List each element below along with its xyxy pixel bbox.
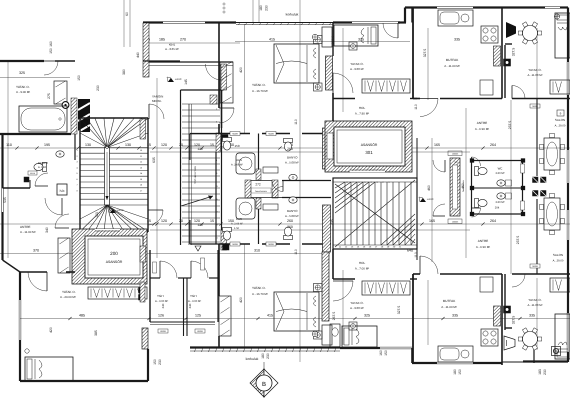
top wall right of window2 — [398, 21, 406, 23]
bottom window center right — [380, 346, 412, 348]
wall x219 upper segment — [218, 23, 220, 62]
chimney trapezoid top — [506, 22, 516, 38]
dimension chain line y77 left — [0, 77, 70, 79]
window marker 90228 right — [530, 104, 540, 108]
svg-text:180: 180 — [261, 353, 265, 359]
window marker 90228 right b — [530, 264, 540, 268]
bed yatak9 top — [334, 25, 378, 46]
fire stair right wall — [221, 64, 223, 128]
circle symbol — [25, 349, 29, 353]
elevator 200 cab — [85, 236, 143, 278]
svg-text:A...20.00 M²: A...20.00 M² — [60, 295, 76, 299]
table round top — [523, 26, 538, 41]
svg-text:YATAK O.: YATAK O. — [528, 298, 541, 302]
wall y279 center — [333, 278, 355, 280]
wardrobe yatak16 top — [220, 62, 233, 103]
dimension chain line y318 — [20, 318, 570, 320]
hb duct box — [57, 184, 67, 195]
svg-text:15: 15 — [210, 143, 214, 147]
svg-text:180: 180 — [259, 5, 263, 11]
center stair bottom-right fan — [381, 214, 415, 245]
svg-text:380: 380 — [122, 69, 126, 75]
top wall right section — [405, 6, 437, 8]
svg-text:90228: 90228 — [268, 243, 273, 246]
svg-text:301: 301 — [365, 150, 373, 155]
wardrobe below elevator — [88, 287, 147, 299]
cabinet left of elevator — [58, 238, 70, 273]
wardrobe right top — [550, 80, 570, 94]
black panel boxes — [139, 288, 145, 294]
salon table top — [544, 138, 560, 170]
svg-text:200: 200 — [110, 251, 118, 256]
svg-text:A. 0.60: A. 0.60 — [38, 166, 47, 169]
top wall window right — [545, 6, 560, 8]
elevator door arc top — [55, 214, 69, 228]
svg-text:635: 635 — [152, 157, 156, 163]
svg-text:A...5.08 M²: A...5.08 M² — [285, 161, 299, 165]
svg-text:100225: 100225 — [452, 221, 458, 224]
wall below tub — [0, 133, 71, 135]
bottom railing center — [190, 350, 340, 352]
kitchen left wall bottom — [412, 274, 414, 363]
svg-text:420: 420 — [239, 297, 243, 303]
hatched wall strip top-left — [143, 23, 149, 77]
fire stair rails — [188, 104, 190, 245]
fire stair hatch top — [210, 95, 217, 104]
svg-text:145: 145 — [184, 79, 188, 85]
svg-text:126: 126 — [158, 314, 164, 318]
svg-text:YATAK O.: YATAK O. — [350, 62, 363, 66]
wall x323 upper — [332, 23, 334, 56]
french balcony inner — [453, 165, 458, 209]
svg-text:YATAK O.: YATAK O. — [252, 83, 266, 87]
salon wall top right — [505, 43, 512, 45]
svg-text:A...9.00 M²: A...9.00 M² — [350, 67, 364, 71]
svg-text:160: 160 — [379, 350, 383, 356]
stove bottom — [481, 329, 498, 346]
nightstand bottom a — [314, 284, 323, 292]
svg-text:60228: 60228 — [30, 172, 35, 175]
svg-text:YGH: YGH — [190, 294, 197, 298]
right wall — [567, 8, 569, 63]
right wall window 4 — [566, 313, 568, 352]
wc bottom sink — [497, 193, 505, 199]
svg-text:15: 15 — [210, 219, 214, 223]
fire stair left wall — [180, 90, 182, 245]
svg-text:A. 2.69 M²: A. 2.69 M² — [231, 223, 243, 226]
dus bottom toilet — [223, 228, 232, 241]
svg-text:120: 120 — [161, 219, 167, 223]
svg-text:ASANSÖR: ASANSÖR — [106, 260, 123, 264]
svg-text:90228: 90228 — [232, 133, 237, 136]
banyo bottom toilet — [284, 227, 293, 240]
stair hall door arc — [149, 104, 164, 119]
antre door arc — [45, 198, 62, 215]
balcony door arc top — [383, 23, 398, 38]
hava bacasi shaft — [245, 180, 251, 198]
cluster left wall — [215, 152, 217, 244]
svg-text:335: 335 — [454, 38, 460, 42]
svg-text:A. 2.69 M²: A. 2.69 M² — [231, 164, 243, 167]
ygh door arc right — [191, 261, 208, 278]
dimension chain line lower 2 — [150, 229, 470, 231]
dus hatch — [256, 169, 261, 180]
black fixture box banyo — [24, 177, 29, 182]
top wall window 2 — [352, 21, 400, 23]
vertical dim line x8 — [7, 60, 9, 258]
banyo toilet top-left — [34, 163, 47, 172]
boiler box — [504, 59, 511, 66]
svg-text:A...16.79 M²: A...16.79 M² — [252, 89, 268, 93]
kitchen door arc — [420, 99, 438, 117]
corridor wall top — [282, 180, 331, 182]
salon kitchen partition bottom — [533, 336, 535, 363]
wc bottom wall — [472, 213, 523, 215]
svg-text:335: 335 — [452, 314, 458, 318]
svg-text:A...3.65 M²: A...3.65 M² — [165, 47, 179, 51]
svg-text:SALON: SALON — [553, 253, 563, 257]
nightstand top b — [314, 83, 323, 91]
svg-text:hava bacası: hava bacası — [255, 190, 267, 193]
elevator 200 door gap — [95, 229, 120, 231]
svg-text:325: 325 — [364, 314, 370, 318]
black wedge block — [78, 99, 90, 132]
svg-text:110: 110 — [294, 119, 298, 125]
svg-text:264: 264 — [490, 143, 496, 147]
vertical dim line x432 — [431, 138, 433, 262]
left wall window — [1, 188, 3, 212]
kitchen cabinet bottom — [480, 277, 493, 292]
svg-text:230: 230 — [265, 5, 269, 11]
ygh door arc left — [160, 261, 177, 278]
banyo top sink — [289, 174, 297, 180]
svg-text:+4.60: +4.60 — [175, 78, 182, 81]
grid bubble 9 — [557, 110, 564, 116]
wc corner blocks — [470, 159, 474, 163]
hol door arc top — [333, 73, 353, 93]
hatch below firestair left — [140, 246, 146, 262]
table round bottom — [523, 332, 538, 347]
svg-text:327.5: 327.5 — [512, 316, 516, 325]
wc window markers — [521, 164, 525, 173]
cabinet top right of bed — [322, 27, 332, 47]
wall y244 left stub — [190, 243, 219, 245]
svg-text:KB41: KB41 — [169, 44, 176, 47]
vertical dim line x130 — [129, 0, 131, 47]
wall x333 vertical bottom — [332, 249, 334, 279]
yatak20 door arc — [28, 272, 47, 291]
left wall band y62 — [149, 61, 233, 63]
svg-text:230: 230 — [266, 353, 270, 359]
banyo wall bottom — [3, 187, 31, 189]
nightstand yatak9 top — [349, 42, 357, 50]
left stair bottom wall — [80, 231, 148, 233]
svg-text:A...9.00 M²: A...9.00 M² — [350, 306, 364, 310]
svg-text:A...9.00 M²: A...9.00 M² — [16, 90, 30, 94]
ygh window marker vert a — [153, 262, 157, 273]
wall y98 center — [333, 98, 355, 100]
left stair arrow — [106, 152, 108, 200]
hatch wall left mid — [140, 119, 146, 139]
svg-text:310: 310 — [254, 249, 260, 253]
svg-text:A...7.80 M²: A...7.80 M² — [355, 112, 369, 116]
svg-text:272: 272 — [255, 183, 261, 187]
wardrobe right bottom — [550, 278, 570, 292]
kitchen door arc bottom — [420, 256, 438, 274]
column squares 2x2 — [533, 177, 539, 183]
top wall window 1 — [163, 21, 205, 23]
svg-text:230: 230 — [543, 369, 547, 375]
nightstand bottom — [330, 324, 340, 347]
dus top shower — [236, 153, 255, 174]
svg-text:260: 260 — [287, 219, 293, 223]
center stair top-left fan — [335, 182, 345, 188]
banyo window marker box — [28, 171, 37, 175]
svg-text:A...3.00 M²: A...3.00 M² — [155, 300, 168, 303]
hatch strip right bottom — [494, 306, 501, 326]
svg-text:150: 150 — [153, 359, 157, 365]
ceiling cross symbol bottom center — [312, 331, 318, 337]
svg-text:korkuluk: korkuluk — [286, 13, 299, 17]
svg-text:60228: 60228 — [160, 330, 165, 333]
black box top cluster — [222, 135, 228, 140]
svg-text:A...11.00 M²: A...11.00 M² — [527, 303, 542, 307]
left wall x2.5 — [1, 134, 3, 188]
wall y62 over fire stair — [143, 60, 180, 62]
svg-text:230: 230 — [158, 359, 162, 365]
svg-text:327.5: 327.5 — [423, 49, 427, 58]
svg-text:60: 60 — [125, 12, 129, 16]
dus hatch b — [256, 198, 261, 209]
window marker 90228 b — [266, 132, 276, 136]
dus top toilet — [223, 138, 232, 151]
center stair top rail — [333, 181, 417, 183]
stove top — [481, 26, 498, 43]
wc top sink — [497, 180, 505, 186]
vertical dim line x511 — [510, 100, 512, 274]
dimension chain line upper 2 — [150, 151, 470, 153]
svg-text:A...6.90 M²: A...6.90 M² — [475, 127, 489, 131]
svg-text:ASANSÖR: ASANSÖR — [361, 143, 378, 147]
kitchen left wall — [412, 8, 414, 99]
svg-text:275: 275 — [47, 93, 51, 99]
salon table bottom — [544, 198, 560, 230]
svg-text:ANTRE: ANTRE — [477, 121, 488, 125]
ygh window marker vert b — [201, 258, 205, 270]
vertical dim line x466 — [465, 108, 467, 258]
kitchen right wall — [501, 8, 503, 99]
svg-text:150: 150 — [49, 48, 53, 54]
nightstand top a — [314, 36, 323, 44]
fire stair direction line — [181, 196, 213, 206]
left stair top wall — [80, 117, 148, 119]
center stair marker +4.60 — [420, 198, 426, 202]
svg-text:A...11.00 M²: A...11.00 M² — [444, 64, 460, 68]
svg-text:195: 195 — [44, 143, 50, 147]
svg-text:150: 150 — [458, 369, 462, 375]
section marker B — [250, 369, 264, 397]
svg-text:415: 415 — [269, 38, 275, 42]
left stair right wall — [147, 118, 149, 232]
svg-text:125: 125 — [195, 314, 201, 318]
svg-text:267.5: 267.5 — [332, 312, 336, 321]
svg-text:B: B — [262, 381, 266, 388]
bed yatak9 bottom — [342, 326, 377, 347]
svg-text:130: 130 — [85, 143, 91, 147]
banyo door arc — [35, 173, 48, 186]
dimension chain line y42 — [143, 42, 240, 44]
hatch wall right of firestair low — [221, 230, 227, 250]
wall x505 vertical — [504, 45, 506, 98]
dus top wall — [258, 134, 260, 170]
bottom wall center right — [340, 347, 380, 349]
svg-text:204: 204 — [495, 207, 500, 210]
svg-text:420: 420 — [239, 67, 243, 73]
top wall left section — [143, 21, 163, 23]
ygh top wall — [150, 277, 160, 279]
svg-text:485: 485 — [79, 314, 85, 318]
bed yatak20 — [25, 357, 73, 381]
boiler box bottom — [504, 306, 511, 313]
left upper wall y61 — [0, 60, 44, 62]
hatch strip right of tub — [71, 98, 77, 134]
bottom wall window kitchen — [437, 361, 473, 363]
svg-text:MERD.: MERD. — [152, 99, 162, 103]
vertical dim line x428 — [427, 28, 429, 100]
svg-text:327.5: 327.5 — [397, 306, 401, 315]
svg-text:165: 165 — [429, 219, 435, 223]
left upper wall y61 b — [55, 60, 75, 62]
svg-text:110: 110 — [414, 104, 418, 110]
bed yatak16 bottom — [274, 292, 319, 331]
banyo bottom counter — [263, 204, 278, 210]
vertical dim line x300 — [299, 0, 301, 362]
svg-text:120: 120 — [161, 143, 167, 147]
svg-text:hava bacası: hava bacası — [462, 180, 465, 192]
ygh window marker 2 — [195, 329, 205, 333]
corridor door arc left — [148, 210, 163, 225]
svg-text:YATAK O.: YATAK O. — [16, 85, 30, 89]
bed right bottom — [555, 314, 570, 359]
svg-text:MUTFAK: MUTFAK — [443, 299, 456, 303]
svg-text:1.50: 1.50 — [234, 227, 240, 230]
svg-text:327.5: 327.5 — [512, 48, 516, 57]
svg-text:A...5.08 M²: A...5.08 M² — [285, 214, 299, 218]
korkuluk top ticks — [239, 22, 241, 25]
bottom wall right section — [523, 360, 568, 362]
lower apt bottom wall — [20, 380, 148, 382]
wall x323 upper hatch — [326, 56, 333, 90]
fire stair top landing wall — [181, 89, 222, 91]
wall x323 hatch segs — [323, 128, 331, 169]
svg-text:240: 240 — [188, 303, 192, 308]
fire stair room door arc — [206, 64, 222, 80]
salon wall bottom right — [505, 327, 512, 329]
vertical dim line x537 — [536, 28, 538, 100]
wc bottom toilet — [475, 199, 488, 208]
svg-text:100225: 100225 — [452, 153, 458, 156]
wc top toilet — [475, 167, 488, 176]
bed right top — [555, 13, 570, 58]
svg-text:165: 165 — [434, 143, 440, 147]
left stair top winder fan — [80, 119, 107, 148]
svg-text:120: 120 — [197, 223, 203, 227]
svg-text:ANTRE: ANTRE — [478, 239, 489, 243]
ygh divider walls — [149, 250, 151, 322]
svg-text:YATAK O.: YATAK O. — [252, 286, 266, 290]
ceiling symbol bottom — [552, 347, 561, 356]
lower apt left window — [18, 300, 20, 340]
svg-text:korkuluk: korkuluk — [246, 357, 259, 361]
svg-text:180: 180 — [453, 369, 457, 375]
svg-text:90228: 90228 — [232, 243, 237, 246]
svg-text:HOL: HOL — [359, 261, 366, 265]
corridor door arc a — [272, 181, 283, 192]
bathtub top-left — [19, 106, 67, 132]
wardrobe yatak16 bottom — [219, 296, 231, 336]
right wall window 2 — [566, 150, 568, 183]
wardrobe top-left — [54, 81, 67, 104]
svg-text:240: 240 — [161, 303, 165, 308]
svg-text:A...11.00 M²: A...11.00 M² — [527, 73, 542, 77]
lower apt right wall — [147, 349, 149, 381]
wall x219 lower — [218, 244, 220, 296]
svg-text:420: 420 — [49, 327, 53, 333]
svg-text:A...3.00 M²: A...3.00 M² — [188, 300, 201, 303]
svg-text:120: 120 — [197, 147, 203, 151]
corridor arcs right — [433, 160, 445, 172]
svg-text:110: 110 — [294, 249, 298, 255]
center stair diagonal — [335, 184, 415, 243]
fire stair marker +4.60 — [168, 78, 174, 82]
hol door arc bottom — [333, 281, 353, 301]
salon wall x537 — [536, 99, 538, 177]
center stair second diagonal — [335, 180, 415, 247]
banyo top toilet — [284, 139, 293, 152]
center stair treads — [344, 182, 346, 245]
svg-text:YATAK O.: YATAK O. — [62, 290, 76, 294]
svg-text:h.b: h.b — [60, 189, 65, 193]
french balcony hatch — [450, 158, 460, 216]
top wall step vertical — [404, 8, 406, 23]
left stair bottom winder fan — [80, 205, 107, 232]
yatak top-left door arc — [44, 61, 58, 75]
svg-text:90228: 90228 — [532, 265, 537, 268]
svg-text:YGH: YGH — [157, 294, 164, 298]
level triangle marker — [195, 246, 201, 251]
svg-text:+4.60: +4.60 — [427, 198, 434, 201]
wc door arcs — [472, 157, 481, 166]
svg-text:+4.60: +4.60 — [117, 209, 124, 212]
bed yatak16 top — [274, 44, 319, 83]
kitchen counter top — [438, 10, 473, 26]
svg-text:385: 385 — [94, 330, 98, 336]
dimension chain line y41 — [235, 41, 410, 43]
svg-text:TOP.16X17.5/28: TOP.16X17.5/28 — [194, 166, 197, 184]
window marker 90228 d — [266, 242, 276, 246]
top wall window kitchen — [437, 6, 473, 8]
svg-text:MUTFAK: MUTFAK — [446, 58, 459, 62]
svg-text:A...16.79 M²: A...16.79 M² — [252, 292, 268, 296]
svg-text:150: 150 — [77, 75, 81, 81]
stair right wall — [416, 138, 418, 260]
ygh window wall — [150, 321, 215, 323]
dimension chain line upper — [0, 147, 570, 149]
closet bottom center — [362, 281, 410, 295]
wall y98 right — [512, 98, 570, 100]
elevator 200 inner white — [79, 233, 81, 235]
dimension chain line y253 — [0, 253, 330, 255]
